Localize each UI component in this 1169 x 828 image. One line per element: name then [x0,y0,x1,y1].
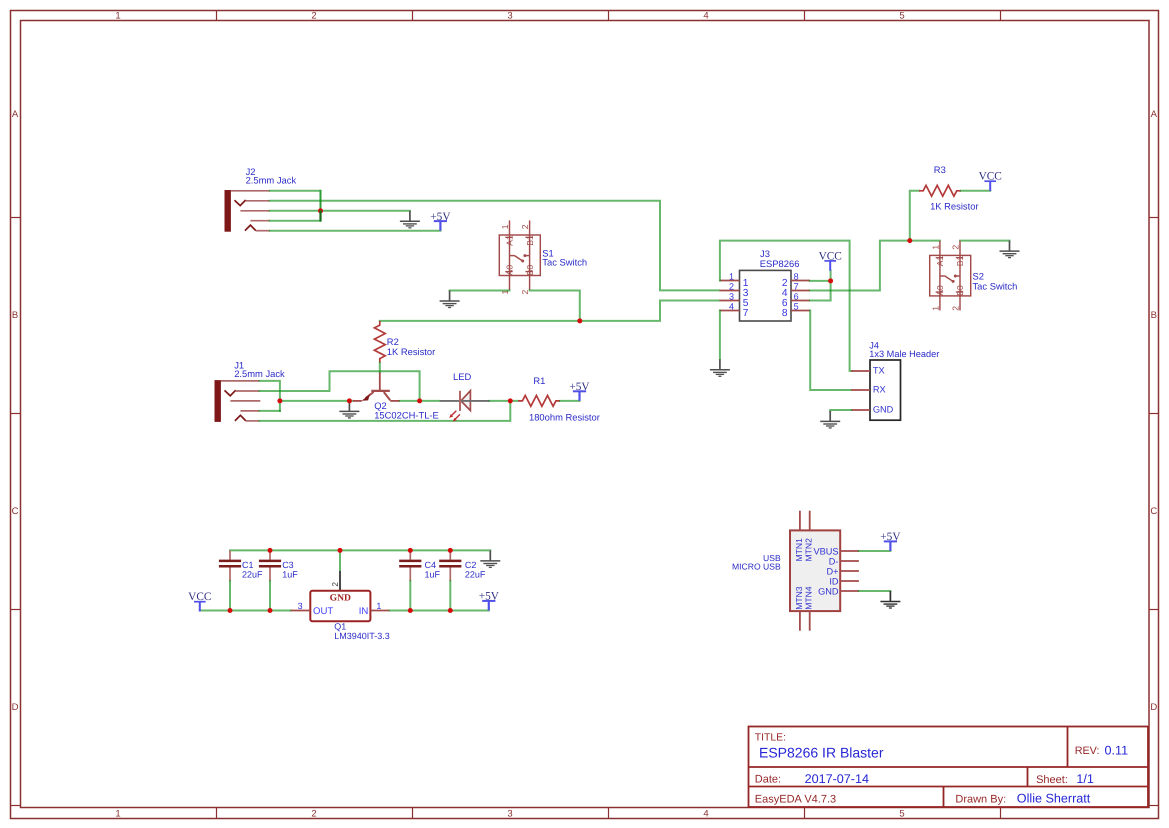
svg-text:Sheet:: Sheet: [1036,774,1068,786]
connector J2 (J2 2.5mm Jack) [225,190,270,232]
svg-text:1/1: 1/1 [1076,772,1094,786]
svg-text:GND: GND [330,592,351,603]
connector J4 (1x3 Male Header) [851,360,900,420]
wire cap top bus [230,549,490,551]
svg-text:A: A [12,109,19,120]
ground Q2 emitter [339,401,359,418]
svg-text:7: 7 [794,282,799,292]
junction bottom bus x=410.3 [408,608,413,613]
svg-text:VCC: VCC [819,250,842,262]
wire J3.5row to J4.RX [810,311,851,391]
svg-text:6: 6 [794,292,799,302]
svg-text:2: 2 [520,290,530,295]
wire S1.B0 to node [530,291,580,321]
connector USB (MICRO USB) [790,511,859,631]
svg-text:C1: C1 [242,560,254,570]
svg-text:Date:: Date: [755,774,781,786]
svg-text:2: 2 [330,582,340,587]
svg-text:B0: B0 [955,285,965,296]
ground S2 [1000,241,1020,258]
svg-text:TX: TX [873,366,885,376]
wire J3.8(2) to VCC [810,280,831,282]
svg-text:Tac Switch: Tac Switch [542,256,587,267]
wire cap bus to Q1.GND [339,550,341,571]
svg-text:VCC: VCC [979,171,1002,183]
wire J1.4 to node [260,410,280,412]
connector J1 (J1 2.5mm Jack) [215,380,261,422]
svg-text:2017-07-14: 2017-07-14 [805,772,869,786]
switch S1 (Tac Switch) [499,220,540,290]
wire Q2 emitter net [280,400,353,402]
ground S1 [440,291,460,308]
svg-text:1uF: 1uF [282,570,298,580]
svg-text:D: D [12,702,19,713]
wire VCC bus left [200,610,290,612]
ground USB [880,591,900,608]
wire node to R3 [910,191,919,241]
svg-text:Drawn By:: Drawn By: [955,794,1006,806]
svg-text:1: 1 [115,10,120,21]
svg-text:180ohm Resistor: 180ohm Resistor [529,411,600,422]
svg-text:C3: C3 [282,560,294,570]
wire R1 to +5V [560,400,579,402]
junction top bus x=450.3 [448,548,453,553]
svg-text:8: 8 [794,272,799,282]
svg-text:R3: R3 [934,164,946,175]
svg-text:A0: A0 [935,285,945,296]
svg-text:22uF: 22uF [242,570,263,580]
junction bottom bus x=230 [228,608,233,613]
wire Q2 collector to LED [400,400,440,402]
svg-text:Ollie Sherratt: Ollie Sherratt [1017,792,1091,806]
svg-text:1uF: 1uF [425,570,441,580]
wire J4.GND to ground [830,410,851,411]
svg-text:MTN1: MTN1 [794,538,804,562]
wire J3.1 to J4.TX [720,241,852,371]
ground cap bus [480,550,500,567]
power flag VCC at J3 [819,250,842,270]
svg-text:B1: B1 [955,255,965,266]
svg-text:1: 1 [115,808,120,819]
resistor R2 (1K) [374,321,385,363]
wire J2.1 to node [270,191,321,221]
svg-text:4: 4 [729,302,734,312]
svg-text:22uF: 22uF [465,570,486,580]
svg-text:+5V: +5V [430,211,451,223]
wire R3 to VCC [961,190,990,192]
svg-text:C: C [1150,506,1157,517]
svg-text:2: 2 [311,10,316,21]
svg-text:5: 5 [794,302,799,312]
junction S1/R2 net [577,318,582,323]
wire J1.5 to LED net [260,401,511,421]
svg-text:B1: B1 [525,235,535,246]
capacitor C1 [219,550,241,610]
wire R2 to Q2 base [379,363,381,373]
svg-text:D: D [1150,702,1157,713]
svg-text:1x3 Male Header: 1x3 Male Header [869,349,939,359]
power flag VCC at R3 [979,171,1002,191]
svg-text:7: 7 [743,308,749,319]
svg-text:RX: RX [873,384,886,394]
svg-text:VCC: VCC [188,591,211,603]
junction top bus x=340 [338,548,343,553]
svg-text:Tac Switch: Tac Switch [973,280,1018,291]
svg-text:1: 1 [500,224,510,229]
svg-text:R2: R2 [387,336,399,347]
wire USB.GND to ground [859,590,891,592]
svg-text:3: 3 [298,601,303,611]
svg-text:TITLE:: TITLE: [755,733,786,744]
junction top bus x=410.3 [408,548,413,553]
wire J2.3 to ground [270,210,410,212]
svg-text:1: 1 [930,306,940,311]
junction emitter ground node [347,398,352,403]
wire J2.5 to +5V [270,230,441,232]
svg-text:4: 4 [703,808,708,819]
svg-text:ESP8266 IR Blaster: ESP8266 IR Blaster [759,745,884,761]
title block [749,727,1149,808]
svg-text:IN: IN [359,606,369,617]
svg-text:1: 1 [930,245,940,250]
svg-text:+5V: +5V [880,531,901,543]
svg-text:+5V: +5V [569,381,590,393]
wire R2 to J3.5 [380,301,720,321]
svg-text:2: 2 [950,245,960,250]
ground J4 [820,411,840,428]
junction LED node [508,398,513,403]
svg-text:5: 5 [899,808,904,819]
wire J2.2 to J3.3 [270,201,720,291]
ground J3 [710,359,730,376]
svg-text:LM3940IT-3.3: LM3940IT-3.3 [334,631,390,641]
junction R3/S2 net [907,238,912,243]
svg-text:A: A [1151,109,1158,120]
wire J1.1 to node [260,381,280,411]
power flag +5V at R1 [569,381,590,401]
power flag +5V at J2 [430,211,451,231]
svg-text:EasyEDA V4.7.3: EasyEDA V4.7.3 [755,793,836,805]
power flag +5V at Q1 IN [479,591,500,611]
svg-text:C4: C4 [425,560,437,570]
svg-text:0.11: 0.11 [1105,744,1129,758]
wire S1.A0 to ground [450,290,510,292]
Q1 GND pin (gray) [339,571,341,591]
junction bottom bus x=270 [268,608,273,613]
junction top bus x=270 [268,548,273,553]
svg-text:2.5mm Jack: 2.5mm Jack [234,368,285,379]
wire J3.7 to ground [719,311,721,360]
wire J3.7row to S2.1 [810,241,940,291]
wire VCC to J3.6 [810,271,831,301]
svg-text:3: 3 [729,292,734,302]
wire J2.4 to node [270,220,321,222]
svg-text:1: 1 [729,272,734,282]
capacitor C2 [439,550,461,610]
svg-text:1K Resistor: 1K Resistor [930,200,978,211]
svg-text:ID: ID [829,576,839,586]
wire J2 node vertical (second pass) [320,191,322,211]
svg-text:B0: B0 [525,265,535,276]
svg-text:2: 2 [311,808,316,819]
svg-text:B: B [1151,310,1157,321]
wire +5V bus right [390,610,489,612]
voltage regulator Q1 (LM3940IT-3.3) [290,591,390,622]
switch S2 (Tac Switch) [930,241,971,311]
capacitor C3 [259,550,281,610]
junction collector node [417,398,422,403]
svg-text:LED: LED [453,371,471,382]
wire J1.2 to Q2 collector [260,371,420,401]
svg-text:ESP8266: ESP8266 [760,258,800,269]
svg-text:OUT: OUT [313,606,333,617]
svg-text:D+: D+ [826,566,838,576]
resistor R1 (180ohm) [518,396,560,407]
junction bottom bus x=450.3 [448,608,453,613]
svg-text:MTN4: MTN4 [804,586,814,610]
svg-text:R1: R1 [533,375,545,386]
svg-text:GND: GND [873,405,894,415]
svg-text:2.5mm Jack: 2.5mm Jack [246,175,297,186]
svg-text:MICRO USB: MICRO USB [732,562,781,572]
junction J1 node [277,398,282,403]
IC J3 (ESP8266) [720,270,811,321]
svg-text:5: 5 [899,10,904,21]
power flag +5V at USB [880,531,901,551]
svg-text:A0: A0 [505,265,515,276]
svg-text:+5V: +5V [479,591,500,603]
LED diode [440,391,490,422]
transistor Q2 (15C02CH-TL-E) [353,372,400,401]
svg-text:2: 2 [729,282,734,292]
junction VCC node [828,278,833,283]
svg-text:15C02CH-TL-E: 15C02CH-TL-E [374,409,439,420]
capacitor C4 [399,550,421,610]
svg-text:D-: D- [829,556,839,566]
ground J2 sleeve [400,211,420,228]
svg-text:4: 4 [703,10,708,21]
wire overlap segment (dark) [319,210,321,221]
svg-text:2: 2 [520,224,530,229]
svg-text:1K Resistor: 1K Resistor [387,346,435,357]
svg-text:B: B [12,310,18,321]
power flag VCC at Q1 OUT [188,591,211,611]
svg-text:VBUS: VBUS [813,546,838,556]
svg-text:2: 2 [950,306,960,311]
svg-text:REV:: REV: [1075,745,1100,757]
svg-text:C: C [12,506,19,517]
svg-text:8: 8 [782,308,788,319]
svg-text:MTN2: MTN2 [804,538,814,562]
wire LED to R1 [490,400,518,402]
svg-text:3: 3 [507,808,512,819]
resistor R3 (1K) [919,185,961,196]
svg-text:MTN3: MTN3 [794,586,804,610]
wire S2.2 to ground [960,240,1010,242]
svg-text:1: 1 [376,601,381,611]
junction J2 net (ring) [318,208,323,213]
svg-text:A1: A1 [935,255,945,266]
svg-text:C2: C2 [465,560,477,570]
wire USB.VBUS to +5V [859,550,891,552]
svg-text:GND: GND [818,586,839,596]
svg-text:A1: A1 [505,235,515,246]
svg-text:3: 3 [507,10,512,21]
